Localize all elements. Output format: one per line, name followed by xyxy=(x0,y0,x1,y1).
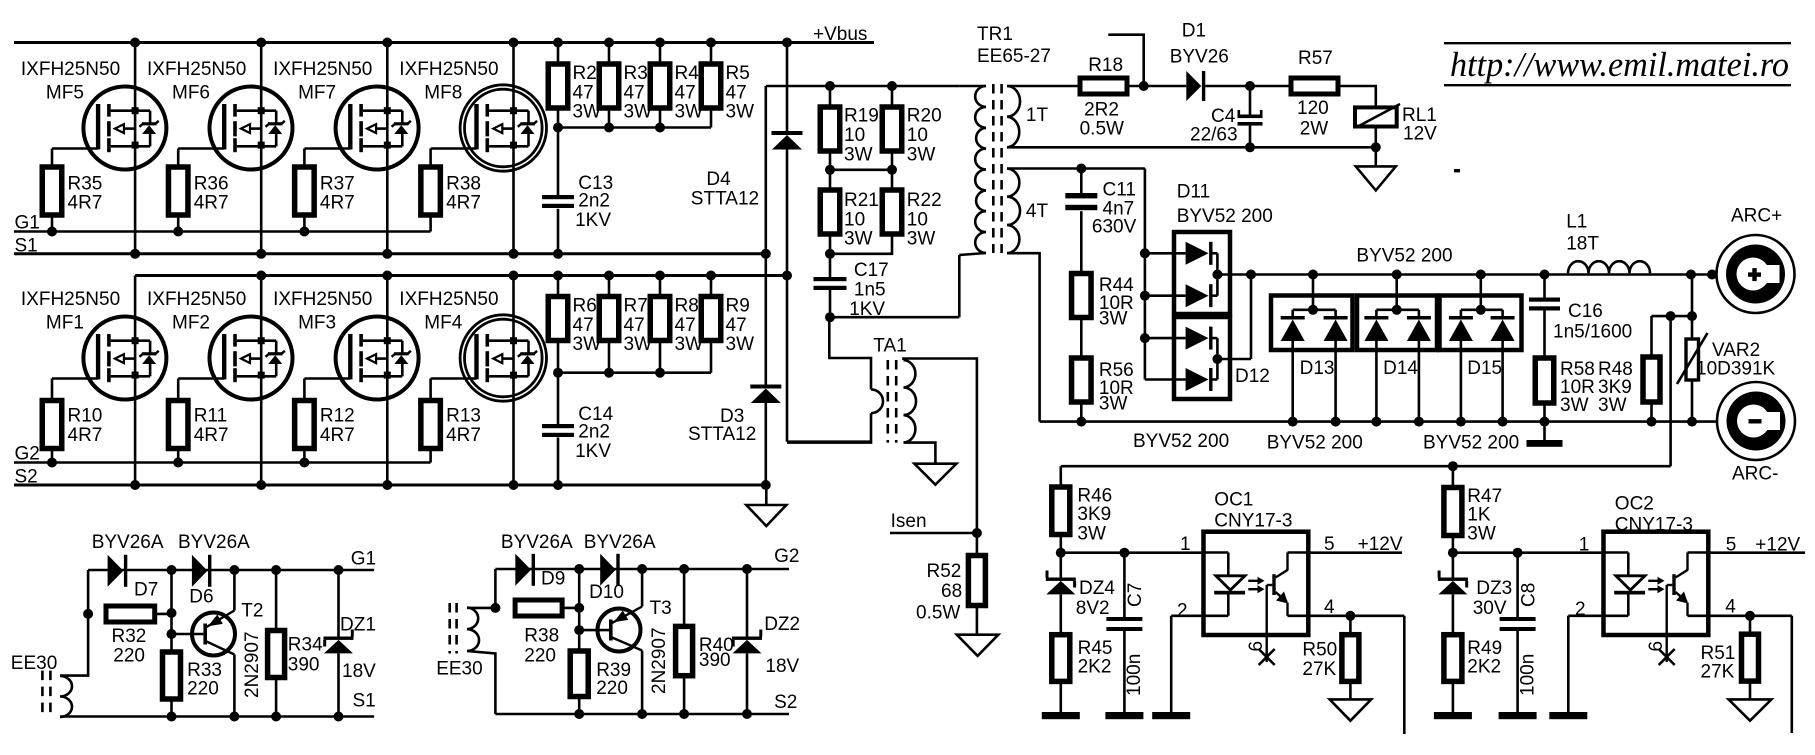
svg-text:R3: R3 xyxy=(624,63,648,84)
svg-text:R38: R38 xyxy=(524,626,559,647)
svg-text:BYV26A: BYV26A xyxy=(501,532,573,553)
svg-text:MF2: MF2 xyxy=(172,313,210,334)
svg-text:D14: D14 xyxy=(1383,358,1418,379)
svg-text:4R7: 4R7 xyxy=(446,425,481,446)
svg-text:D13: D13 xyxy=(1300,358,1335,379)
svg-text:18V: 18V xyxy=(342,661,376,682)
svg-text:IXFH25N50: IXFH25N50 xyxy=(273,289,372,310)
svg-text:R32: R32 xyxy=(112,626,147,647)
svg-text:BYV52 200: BYV52 200 xyxy=(1423,433,1519,454)
svg-text:47: 47 xyxy=(573,315,594,336)
svg-text:4R7: 4R7 xyxy=(194,425,229,446)
svg-text:D6: D6 xyxy=(189,587,213,608)
svg-text:2n2: 2n2 xyxy=(578,421,610,442)
svg-text:R13: R13 xyxy=(446,406,481,427)
svg-text:1T: 1T xyxy=(1026,105,1049,126)
svg-text:C17: C17 xyxy=(854,260,889,281)
svg-text:R10: R10 xyxy=(68,406,103,427)
svg-text:D11: D11 xyxy=(1177,181,1210,202)
svg-text:MF5: MF5 xyxy=(46,83,84,104)
svg-text:47: 47 xyxy=(726,82,747,103)
svg-text:BYV26: BYV26 xyxy=(1170,46,1229,67)
svg-text:STTA12: STTA12 xyxy=(688,424,756,445)
svg-text:R20: R20 xyxy=(907,106,942,127)
svg-text:4R7: 4R7 xyxy=(320,193,355,214)
svg-text:390: 390 xyxy=(288,655,320,676)
svg-text:47: 47 xyxy=(675,315,696,336)
svg-text:68: 68 xyxy=(941,581,962,602)
svg-text:BYV52 200: BYV52 200 xyxy=(1177,206,1273,227)
svg-text:C7: C7 xyxy=(1125,583,1146,607)
svg-text:3W: 3W xyxy=(907,229,936,250)
svg-text:T3: T3 xyxy=(650,598,672,619)
svg-text:1KV: 1KV xyxy=(575,210,611,231)
svg-text:IXFH25N50: IXFH25N50 xyxy=(147,289,246,310)
svg-text:3W: 3W xyxy=(726,102,755,123)
svg-text:R21: R21 xyxy=(844,190,879,211)
svg-text:G1: G1 xyxy=(351,549,376,570)
svg-text:4R7: 4R7 xyxy=(194,193,229,214)
svg-text:IXFH25N50: IXFH25N50 xyxy=(21,289,120,310)
svg-text:R36: R36 xyxy=(194,173,229,194)
svg-text:G2: G2 xyxy=(774,546,799,567)
svg-text:220: 220 xyxy=(596,678,628,699)
svg-text:G2: G2 xyxy=(15,444,40,465)
svg-text:BYV52 200: BYV52 200 xyxy=(1356,246,1452,267)
svg-text:D9: D9 xyxy=(541,569,565,590)
svg-text:4R7: 4R7 xyxy=(68,425,103,446)
svg-text:3W: 3W xyxy=(1598,395,1627,416)
svg-text:3W: 3W xyxy=(1467,523,1496,544)
svg-text:10: 10 xyxy=(844,125,865,146)
svg-text:BYV26A: BYV26A xyxy=(92,532,164,553)
svg-text:ARC-: ARC- xyxy=(1732,464,1778,485)
svg-text:R2: R2 xyxy=(573,63,597,84)
svg-text:6: 6 xyxy=(1646,641,1667,652)
svg-text:8V2: 8V2 xyxy=(1076,598,1110,619)
svg-text:22/63: 22/63 xyxy=(1190,125,1238,146)
svg-text:MF4: MF4 xyxy=(424,313,462,334)
svg-text:http://www.emil.matei.ro: http://www.emil.matei.ro xyxy=(1450,45,1789,84)
svg-text:4T: 4T xyxy=(1026,201,1049,222)
svg-text:2: 2 xyxy=(1177,601,1188,622)
svg-text:MF8: MF8 xyxy=(424,83,462,104)
svg-text:C8: C8 xyxy=(1519,583,1540,607)
svg-text:220: 220 xyxy=(187,679,219,700)
svg-text:3W: 3W xyxy=(844,229,873,250)
svg-text:R52: R52 xyxy=(927,561,962,582)
svg-text:10D391K: 10D391K xyxy=(1696,359,1776,380)
svg-text:R9: R9 xyxy=(726,296,750,317)
svg-text:10: 10 xyxy=(844,209,865,230)
svg-text:EE65-27: EE65-27 xyxy=(977,46,1051,67)
svg-text:T2: T2 xyxy=(241,601,263,622)
svg-text:S2: S2 xyxy=(774,692,797,713)
svg-text:D10: D10 xyxy=(589,582,624,603)
svg-text:S2: S2 xyxy=(15,467,38,488)
svg-text:10: 10 xyxy=(907,209,928,230)
svg-text:10: 10 xyxy=(907,125,928,146)
svg-text:MF3: MF3 xyxy=(298,313,336,334)
svg-text:2n2: 2n2 xyxy=(578,190,610,211)
svg-text:STTA12: STTA12 xyxy=(691,189,759,210)
svg-text:S1: S1 xyxy=(15,236,38,257)
svg-text:DZ1: DZ1 xyxy=(340,615,376,636)
svg-text:0.5W: 0.5W xyxy=(916,603,960,624)
svg-text:220: 220 xyxy=(113,646,145,667)
svg-text:BYV26A: BYV26A xyxy=(178,532,250,553)
svg-text:IXFH25N50: IXFH25N50 xyxy=(399,289,498,310)
svg-text:R35: R35 xyxy=(68,173,103,194)
svg-text:0.5W: 0.5W xyxy=(1080,119,1124,140)
svg-text:R34: R34 xyxy=(288,635,323,656)
svg-text:R7: R7 xyxy=(624,296,648,317)
svg-text:DZ2: DZ2 xyxy=(764,614,800,635)
svg-text:BYV26A: BYV26A xyxy=(584,532,656,553)
svg-text:47: 47 xyxy=(624,82,645,103)
svg-text:3W: 3W xyxy=(907,144,936,165)
svg-text:47: 47 xyxy=(573,82,594,103)
svg-text:100n: 100n xyxy=(1518,654,1539,696)
svg-text:R57: R57 xyxy=(1298,48,1333,69)
svg-text:OC1: OC1 xyxy=(1214,490,1253,511)
svg-text:D12: D12 xyxy=(1235,366,1270,387)
svg-text:DZ4: DZ4 xyxy=(1079,578,1115,599)
svg-text:2K2: 2K2 xyxy=(1078,656,1112,677)
svg-text:47: 47 xyxy=(624,315,645,336)
svg-text:R5: R5 xyxy=(726,63,750,84)
svg-text:1: 1 xyxy=(1579,535,1590,556)
svg-text:IXFH25N50: IXFH25N50 xyxy=(399,59,498,80)
svg-text:ARC+: ARC+ xyxy=(1731,206,1782,227)
svg-text:R18: R18 xyxy=(1088,55,1123,76)
svg-text:3K9: 3K9 xyxy=(1077,504,1111,525)
svg-text:R37: R37 xyxy=(320,173,355,194)
svg-text:D15: D15 xyxy=(1467,358,1502,379)
svg-text:27K: 27K xyxy=(1302,659,1336,680)
svg-text:1n5/1600: 1n5/1600 xyxy=(1553,322,1632,343)
svg-text:R8: R8 xyxy=(675,296,699,317)
svg-text:C16: C16 xyxy=(1568,301,1603,322)
svg-text:47: 47 xyxy=(726,315,747,336)
svg-text:2N2907: 2N2907 xyxy=(649,627,670,694)
svg-text:4: 4 xyxy=(1725,597,1736,618)
svg-text:4R7: 4R7 xyxy=(320,425,355,446)
svg-text:2W: 2W xyxy=(1300,119,1329,140)
svg-text:R38: R38 xyxy=(446,173,481,194)
svg-text:1: 1 xyxy=(1180,534,1191,555)
svg-text:630V: 630V xyxy=(1092,217,1137,238)
svg-text:390: 390 xyxy=(699,650,731,671)
svg-text:S1: S1 xyxy=(353,691,376,712)
svg-text:R11: R11 xyxy=(194,406,227,427)
svg-text:D4: D4 xyxy=(706,169,731,190)
svg-text:BYV52 200: BYV52 200 xyxy=(1133,431,1229,452)
svg-text:IXFH25N50: IXFH25N50 xyxy=(21,59,120,80)
svg-text:2R2: 2R2 xyxy=(1084,100,1119,121)
svg-text:R22: R22 xyxy=(907,190,942,211)
svg-text:CNY17-3: CNY17-3 xyxy=(1615,515,1693,536)
svg-text:R4: R4 xyxy=(675,63,700,84)
svg-text:R19: R19 xyxy=(844,106,879,127)
svg-text:+Vbus: +Vbus xyxy=(813,24,867,45)
svg-text:1n5: 1n5 xyxy=(854,279,886,300)
svg-text:TA1: TA1 xyxy=(873,336,906,357)
svg-text:R12: R12 xyxy=(320,406,355,427)
svg-text:3W: 3W xyxy=(1099,394,1128,415)
svg-text:12V: 12V xyxy=(1403,124,1437,145)
svg-text:30V: 30V xyxy=(1473,598,1507,619)
svg-text:MF6: MF6 xyxy=(172,83,210,104)
svg-text:4R7: 4R7 xyxy=(68,193,103,214)
svg-text:2K2: 2K2 xyxy=(1467,656,1501,677)
svg-text:IXFH25N50: IXFH25N50 xyxy=(147,59,246,80)
svg-text:DZ3: DZ3 xyxy=(1476,578,1512,599)
svg-text:18T: 18T xyxy=(1566,233,1599,254)
svg-text:120: 120 xyxy=(1297,98,1329,119)
svg-text:Isen: Isen xyxy=(891,511,927,532)
svg-text:CNY17-3: CNY17-3 xyxy=(1214,511,1292,532)
svg-text:EE30: EE30 xyxy=(436,659,482,680)
svg-text:3W: 3W xyxy=(1099,309,1128,330)
svg-text:OC2: OC2 xyxy=(1615,494,1654,515)
svg-text:100n: 100n xyxy=(1124,654,1145,696)
svg-text:D7: D7 xyxy=(134,579,158,600)
svg-text:IXFH25N50: IXFH25N50 xyxy=(273,59,372,80)
svg-text:6: 6 xyxy=(1246,641,1267,652)
svg-text:1KV: 1KV xyxy=(575,441,611,462)
svg-text:220: 220 xyxy=(524,646,556,667)
svg-text:MF1: MF1 xyxy=(46,313,84,334)
svg-text:3W: 3W xyxy=(1560,395,1589,416)
svg-text:R6: R6 xyxy=(573,296,597,317)
svg-text:3W: 3W xyxy=(1077,523,1106,544)
svg-text:L1: L1 xyxy=(1566,212,1587,233)
svg-text:27K: 27K xyxy=(1701,662,1735,683)
svg-text:47: 47 xyxy=(675,82,696,103)
svg-text:BYV52 200: BYV52 200 xyxy=(1267,433,1363,454)
svg-text:3W: 3W xyxy=(844,144,873,165)
svg-text:D1: D1 xyxy=(1182,20,1206,41)
svg-text:3W: 3W xyxy=(726,334,755,355)
svg-text:4R7: 4R7 xyxy=(446,193,481,214)
svg-text:MF7: MF7 xyxy=(298,83,336,104)
svg-text:2N2907: 2N2907 xyxy=(242,631,263,698)
svg-text:TR1: TR1 xyxy=(977,24,1013,45)
svg-text:18V: 18V xyxy=(765,656,799,677)
svg-text:R50: R50 xyxy=(1302,640,1337,661)
svg-text:G1: G1 xyxy=(15,213,40,234)
